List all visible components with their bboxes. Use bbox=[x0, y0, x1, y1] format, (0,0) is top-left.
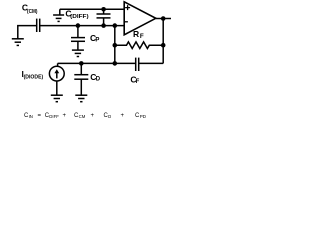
node dot C(DIFF) bottom bbox=[101, 23, 106, 28]
ground G1 bbox=[12, 39, 24, 46]
svg-text:D: D bbox=[96, 77, 101, 83]
svg-text:CM: CM bbox=[79, 114, 86, 119]
node dot output bbox=[161, 16, 166, 21]
svg-text:R: R bbox=[133, 29, 139, 39]
node dot C(DIFF) top bbox=[101, 7, 106, 12]
wire CD top stub bbox=[80, 63, 82, 74]
svg-text:(DIFF): (DIFF) bbox=[70, 14, 89, 20]
ground G3 bbox=[72, 50, 84, 56]
current source I(DIODE) bbox=[49, 66, 64, 81]
wire output bbox=[156, 18, 171, 20]
svg-text:DIFF: DIFF bbox=[49, 114, 59, 119]
wire right rail bbox=[162, 19, 164, 64]
label C(DIFF) bbox=[65, 8, 88, 20]
wire noninverting-input bbox=[60, 8, 124, 10]
svg-text:P: P bbox=[95, 37, 99, 43]
label CP bbox=[90, 33, 99, 44]
label RF bbox=[133, 29, 144, 40]
svg-text:F: F bbox=[136, 79, 140, 85]
label CF bbox=[130, 75, 139, 86]
op-amp plus sign bbox=[125, 5, 130, 10]
svg-text:PD: PD bbox=[140, 114, 147, 119]
capacitor CD bbox=[74, 75, 88, 80]
wire C(DIFF) stubs bbox=[103, 9, 105, 25]
svg-text:+: + bbox=[121, 113, 125, 119]
svg-text:IN: IN bbox=[29, 114, 33, 119]
node dot CD junction bbox=[79, 61, 84, 66]
node dot RF right bbox=[161, 43, 166, 48]
wire current source bottom stub bbox=[56, 81, 58, 96]
wire inverting-input main bbox=[40, 25, 125, 27]
node dot feedback tap bbox=[113, 23, 118, 28]
op-amp minus sign bbox=[125, 21, 128, 23]
label C(CM) bbox=[22, 3, 38, 15]
wire photodiode node row bbox=[58, 62, 164, 64]
svg-text:=: = bbox=[38, 113, 42, 119]
svg-text:D: D bbox=[108, 114, 111, 119]
wire feedback left rail bbox=[114, 26, 116, 64]
ground G5 bbox=[75, 95, 87, 102]
wire CD bottom stub bbox=[80, 79, 82, 95]
current source arrow bbox=[56, 72, 58, 79]
wire CP stubs bbox=[77, 26, 79, 50]
svg-text:(DIODE): (DIODE) bbox=[24, 75, 44, 81]
label I(DIODE) bbox=[22, 69, 44, 81]
capacitor C(DIFF) bbox=[97, 14, 111, 18]
node dot CP junction bbox=[76, 23, 81, 28]
wire inverting-input left segment with corner bbox=[18, 26, 37, 39]
svg-text:F: F bbox=[140, 33, 144, 40]
label CD bbox=[90, 72, 101, 83]
op-amp U1 bbox=[124, 2, 156, 35]
svg-text:+: + bbox=[91, 113, 95, 119]
capacitor CF bbox=[136, 58, 139, 71]
ground G4 bbox=[51, 95, 63, 102]
node dot RF left bbox=[113, 43, 118, 48]
resistor RF bbox=[115, 42, 163, 49]
caption equation bbox=[24, 113, 147, 119]
wire current source top stub bbox=[57, 63, 59, 66]
capacitor C(CM) bbox=[37, 19, 40, 32]
ground G2 bbox=[53, 9, 64, 21]
capacitor CP bbox=[71, 38, 85, 42]
svg-text:+: + bbox=[63, 113, 67, 119]
svg-text:(CM): (CM) bbox=[27, 9, 38, 15]
node dot bottom rail bbox=[113, 61, 118, 66]
